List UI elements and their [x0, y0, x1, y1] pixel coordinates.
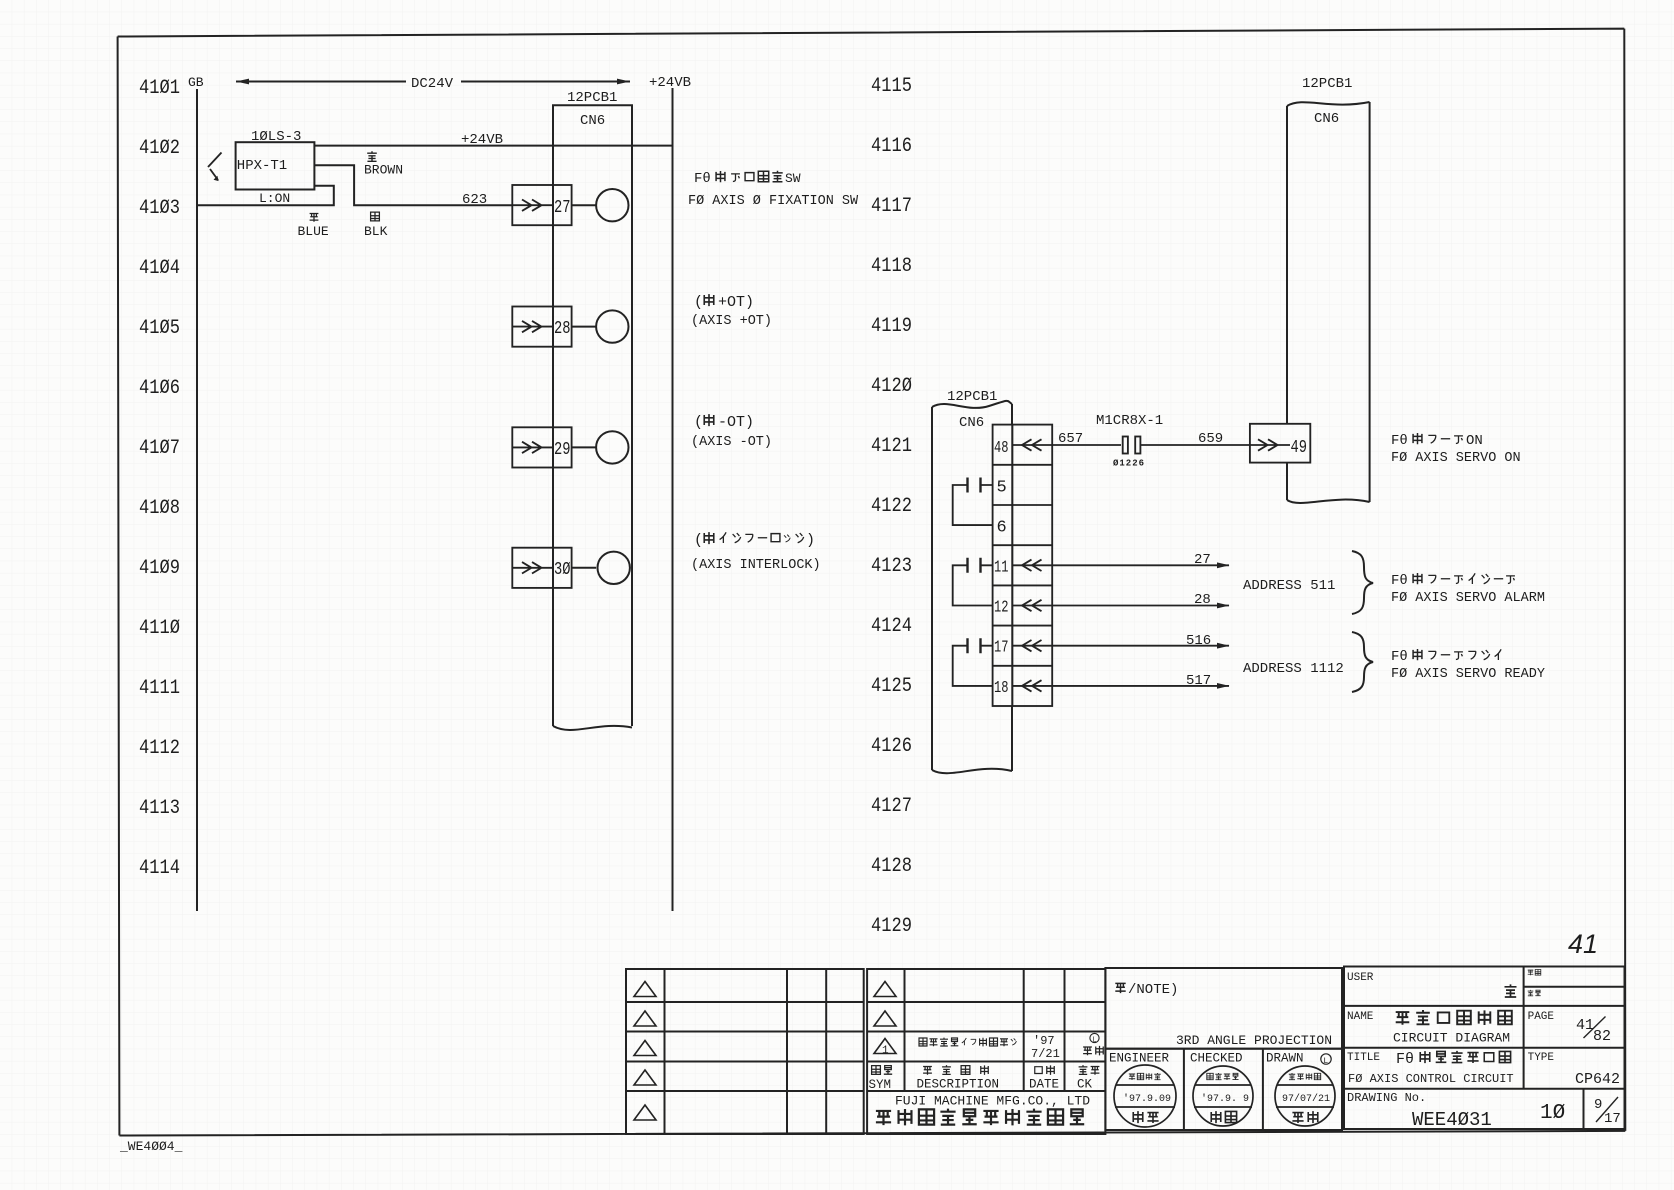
svg-text:BLUE: BLUE: [298, 224, 329, 239]
contact cell 30: [512, 548, 571, 588]
node GB : ground bus vertical: [196, 89, 198, 911]
svg-text:(AXIS INTERLOCK): (AXIS INTERLOCK): [691, 558, 821, 573]
svg-text:659: 659: [1198, 431, 1223, 447]
svg-text:4111: 4111: [139, 677, 180, 700]
connector board 12PCB1 top right (CN6) outline wavy: [1287, 102, 1370, 503]
svg-text:41Ø8: 41Ø8: [139, 497, 180, 520]
svg-text:CP642: CP642: [1575, 1071, 1620, 1088]
svg-text:SW: SW: [785, 171, 801, 186]
svg-text:517: 517: [1186, 673, 1211, 689]
header SYM kanji: [869, 1066, 893, 1092]
revision triangle row4 left: [634, 1070, 656, 1085]
svg-text:CK: CK: [1077, 1078, 1093, 1092]
title kanji circuit diagram: [1396, 1010, 1512, 1025]
label (axis +OT) JP: [694, 294, 754, 311]
note box: [1105, 968, 1342, 1049]
svg-text:NAME: NAME: [1347, 1011, 1374, 1023]
svg-text:41Ø5: 41Ø5: [139, 317, 180, 340]
revision description kanji row3: [919, 1038, 1016, 1047]
svg-text:657: 657: [1058, 431, 1083, 447]
label (axis interlock) JP: [694, 532, 815, 549]
svg-text:4115: 4115: [871, 75, 912, 98]
connector board 12PCB1 middle (CN6) tall outline wavy top and bottom: [932, 401, 1012, 773]
svg-text:Fθ: Fθ: [1391, 649, 1408, 665]
wire +24VB rung 4102 from switch to bus: [314, 145, 672, 147]
revision triangle row3 left: [634, 1041, 656, 1056]
revision CK circle-L and name: [1083, 1033, 1103, 1055]
svg-text:DATE: DATE: [1029, 1078, 1059, 1092]
svg-text:1: 1: [882, 1045, 889, 1057]
svg-text:+24VB: +24VB: [649, 75, 691, 91]
FUJI MACHINE company row: [876, 1094, 1090, 1126]
svg-text:48: 48: [994, 439, 1009, 458]
svg-text:4116: 4116: [871, 135, 912, 158]
svg-text:L: L: [1092, 1036, 1096, 1044]
svg-text:(: (: [694, 532, 703, 549]
svg-text:L:ON: L:ON: [259, 191, 290, 206]
node +24VB : right supply bus vertical: [672, 88, 674, 911]
wire DC24V span arrow line: [236, 81, 630, 83]
label (axis -OT) JP: [694, 414, 754, 431]
svg-text:4127: 4127: [871, 795, 912, 818]
svg-text:29: 29: [554, 440, 571, 460]
wire black: switch to elbow then rung 4103 to contact 27: [314, 165, 512, 205]
svg-text:4118: 4118: [871, 255, 912, 278]
svg-text:-OT): -OT): [718, 414, 754, 431]
connector board 12PCB1 left (CN6) outline with wavy bottom: [553, 105, 632, 730]
svg-text:ADDRESS 1112: ADDRESS 1112: [1243, 661, 1344, 677]
svg-text:41: 41: [1576, 1017, 1594, 1034]
svg-text:(: (: [694, 414, 703, 431]
svg-text:4112: 4112: [139, 737, 180, 760]
contact cell 49 with chevron arrows: [1250, 424, 1310, 463]
stamp checked: [1193, 1066, 1253, 1126]
svg-text:Fθ: Fθ: [1391, 573, 1408, 589]
lamp circle 27: [572, 189, 629, 221]
svg-text:28: 28: [1194, 592, 1211, 608]
svg-text:41Ø9: 41Ø9: [139, 557, 180, 580]
svg-text:41Ø3: 41Ø3: [139, 197, 180, 220]
revision triangle row1 right: [874, 982, 896, 997]
svg-text:DESCRIPTION: DESCRIPTION: [917, 1078, 1000, 1092]
label class cell kanji: [1528, 970, 1541, 976]
svg-text:'97.9.09: '97.9.09: [1123, 1093, 1171, 1105]
label black kanji: [371, 212, 380, 221]
capacitor filter on pins 11-12: [953, 558, 993, 606]
label NOTE: [1115, 982, 1178, 998]
svg-text:GB: GB: [188, 75, 204, 90]
svg-text:HPX-T1: HPX-T1: [237, 158, 287, 174]
svg-text:DRAWN: DRAWN: [1266, 1052, 1304, 1066]
svg-text:4124: 4124: [871, 615, 912, 638]
svg-text:41Ø4: 41Ø4: [139, 257, 180, 280]
contact cell 28: [512, 307, 571, 347]
svg-text:_WE4ØØ4_: _WE4ØØ4_: [119, 1139, 183, 1154]
svg-text:4114: 4114: [139, 857, 180, 880]
svg-text:BROWN: BROWN: [364, 163, 403, 178]
title JP F-theta axis control circuit: [1396, 1051, 1511, 1068]
wire pin17 output 516: [1012, 640, 1229, 651]
revision table right: [867, 969, 1105, 1134]
svg-text:516: 516: [1186, 633, 1211, 649]
svg-text:5: 5: [997, 479, 1007, 498]
svg-text:4126: 4126: [871, 735, 912, 758]
label dono kanji: [1505, 984, 1517, 997]
svg-text:DRAWING No.: DRAWING No.: [1347, 1091, 1426, 1105]
svg-text:TYPE: TYPE: [1528, 1052, 1555, 1064]
svg-text:FØ AXIS SERVO READY: FØ AXIS SERVO READY: [1391, 667, 1545, 682]
svg-text:(: (: [694, 294, 703, 311]
svg-text:CN6: CN6: [580, 113, 605, 129]
svg-text:PAGE: PAGE: [1528, 1011, 1555, 1023]
relay coil capacitor-style plates: [1123, 437, 1141, 454]
svg-text:12: 12: [994, 599, 1009, 618]
header DATE kanji: [1029, 1065, 1059, 1091]
revision triangle row5 left: [634, 1105, 656, 1120]
wire 659 coil to contact 49: [1141, 444, 1250, 446]
contact cell 29: [512, 427, 571, 467]
svg-text:41Ø6: 41Ø6: [139, 377, 180, 400]
svg-text:17: 17: [1604, 1111, 1621, 1127]
revision triangle row1 left: [634, 982, 656, 997]
svg-text:Fθ: Fθ: [694, 171, 711, 187]
svg-text:12PCB1: 12PCB1: [567, 90, 617, 106]
revision table left: [626, 969, 864, 1134]
svg-text:ON: ON: [1466, 433, 1483, 449]
svg-text:4113: 4113: [139, 797, 180, 820]
svg-text:): ): [806, 532, 815, 549]
svg-text:4128: 4128: [871, 855, 912, 878]
wire pin48 to relay coil with left chevrons: [1012, 439, 1121, 450]
title block frame: [1344, 967, 1625, 1130]
revision date 97 7/21: [1031, 1034, 1060, 1061]
svg-text:WEE4Ø31: WEE4Ø31: [1412, 1109, 1492, 1131]
svg-text:41: 41: [1568, 929, 1598, 959]
svg-text:27: 27: [1194, 552, 1211, 568]
drawn circle-L mark: [1321, 1054, 1331, 1066]
svg-text:4129: 4129: [871, 915, 912, 938]
stamp drawn: [1275, 1066, 1335, 1126]
svg-text:1Ø: 1Ø: [1540, 1102, 1565, 1125]
label F-theta axis servo ready (JP): [1391, 649, 1501, 665]
svg-text:11: 11: [994, 559, 1009, 578]
revision triangle rev1 with number: [874, 1039, 896, 1058]
svg-text:3RD ANGLE PROJECTION: 3RD ANGLE PROJECTION: [1176, 1033, 1332, 1048]
svg-text:1ØLS-3: 1ØLS-3: [251, 129, 301, 145]
svg-text:(AXIS +OT): (AXIS +OT): [691, 314, 772, 329]
svg-text:41Ø7: 41Ø7: [139, 437, 180, 460]
label F-theta axis servo ON (JP): [1391, 433, 1483, 449]
limit switch 10LS-3 HPX-T1 box: [236, 142, 315, 189]
limit switch actuator arrow: [208, 153, 222, 182]
svg-text:41Ø1: 41Ø1: [139, 77, 180, 100]
page fraction 41/82: [1576, 1017, 1611, 1046]
svg-text:41Ø2: 41Ø2: [139, 137, 180, 160]
capacitor filter on pins 5-6: [953, 478, 993, 526]
header CK kanji: [1077, 1065, 1099, 1091]
svg-text:82: 82: [1593, 1028, 1611, 1045]
svg-text:4123: 4123: [871, 555, 912, 578]
svg-text:USER: USER: [1347, 972, 1374, 984]
svg-text:L: L: [1323, 1057, 1328, 1066]
svg-text:17: 17: [994, 639, 1009, 658]
svg-text:FØ AXIS SERVO ON: FØ AXIS SERVO ON: [1391, 451, 1521, 466]
svg-text:4117: 4117: [871, 195, 912, 218]
svg-text:6: 6: [997, 519, 1007, 538]
svg-text:18: 18: [994, 679, 1009, 698]
svg-text:BLK: BLK: [364, 224, 388, 239]
svg-text:97/07/21: 97/07/21: [1282, 1093, 1330, 1105]
label F-theta axis servo alarm (JP): [1391, 573, 1515, 589]
svg-text:ENGINEER: ENGINEER: [1109, 1052, 1170, 1066]
svg-text:12PCB1: 12PCB1: [947, 389, 997, 405]
svg-text:'97: '97: [1033, 1034, 1055, 1048]
svg-text:4122: 4122: [871, 495, 912, 518]
svg-text:27: 27: [554, 198, 571, 218]
svg-text:DC24V: DC24V: [411, 76, 454, 92]
svg-text:3Ø: 3Ø: [554, 560, 571, 580]
revision triangle row2 right: [874, 1011, 896, 1026]
capacitor filter on pins 17-18: [953, 638, 993, 686]
middle rung-number column 4115-4129: [871, 75, 912, 938]
svg-text:'97.9. 9: '97.9. 9: [1201, 1093, 1249, 1105]
svg-text:4119: 4119: [871, 315, 912, 338]
connector pin table: pin column and arrow column: [993, 425, 1053, 706]
svg-text:ADDRESS 511: ADDRESS 511: [1243, 578, 1335, 594]
svg-text:412Ø: 412Ø: [871, 375, 912, 398]
svg-text:4121: 4121: [871, 435, 912, 458]
svg-text:FØ AXIS CONTROL CIRCUIT: FØ AXIS CONTROL CIRCUIT: [1348, 1072, 1514, 1086]
svg-text:FØ AXIS SERVO ALARM: FØ AXIS SERVO ALARM: [1391, 591, 1545, 606]
lamp circle 28: [572, 310, 629, 342]
contact cell 27 with chevron arrows: [512, 185, 571, 225]
stamp cells engineer checked drawn: [1105, 1049, 1342, 1130]
lamp circle 30: [572, 552, 630, 584]
svg-text:TITLE: TITLE: [1347, 1052, 1380, 1064]
svg-text:CN6: CN6: [1314, 111, 1339, 127]
left rung-number column 4101-4114: [139, 77, 180, 880]
stamp engineer: [1114, 1065, 1176, 1127]
wire pin12 output 28: [1012, 600, 1229, 611]
svg-text:FUJI MACHINE MFG.CO., LTD: FUJI MACHINE MFG.CO., LTD: [895, 1094, 1090, 1109]
wire pin18 output 517: [1012, 680, 1229, 691]
svg-text:SYM: SYM: [869, 1078, 892, 1092]
label brown kanji: [367, 151, 377, 161]
svg-text:CN6: CN6: [959, 415, 984, 431]
brace servo alarm group: [1352, 551, 1373, 614]
svg-text:CHECKED: CHECKED: [1190, 1052, 1243, 1066]
label blue kanji: [310, 213, 319, 221]
svg-text:+OT): +OT): [718, 294, 754, 311]
svg-text:28: 28: [554, 319, 571, 339]
svg-text:(AXIS -OT): (AXIS -OT): [691, 435, 772, 450]
svg-text:623: 623: [462, 192, 487, 208]
label F-theta axis zero set SW (JP): [694, 171, 801, 187]
label prod cell kanji: [1528, 990, 1541, 996]
svg-text:/NOTE): /NOTE): [1128, 982, 1178, 998]
wire pin11 output 27: [1012, 560, 1229, 571]
svg-text:FØ AXIS Ø FIXATION SW: FØ AXIS Ø FIXATION SW: [688, 194, 859, 209]
header DESCRIPTION kanji: [917, 1065, 1000, 1091]
sheet fraction 9/17: [1594, 1097, 1621, 1127]
revision triangle row2 left: [634, 1011, 656, 1026]
svg-text:4125: 4125: [871, 675, 912, 698]
svg-text:M1CR8X-1: M1CR8X-1: [1096, 413, 1163, 429]
lamp circle 29: [572, 431, 629, 463]
svg-text:49: 49: [1291, 438, 1308, 458]
brace servo ready group: [1352, 632, 1373, 692]
svg-text:Fθ: Fθ: [1391, 433, 1408, 449]
svg-text:12PCB1: 12PCB1: [1302, 76, 1352, 92]
wire blue: GB bus to switch bottom rung 4103: [197, 186, 334, 205]
svg-text:Ø1226: Ø1226: [1113, 459, 1145, 469]
svg-text:Fθ: Fθ: [1396, 1051, 1414, 1068]
svg-text:CIRCUIT DIAGRAM: CIRCUIT DIAGRAM: [1393, 1031, 1510, 1046]
svg-text:+24VB: +24VB: [461, 132, 503, 148]
svg-text:7/21: 7/21: [1031, 1047, 1060, 1061]
svg-text:9: 9: [1594, 1097, 1602, 1113]
svg-text:411Ø: 411Ø: [139, 617, 180, 640]
